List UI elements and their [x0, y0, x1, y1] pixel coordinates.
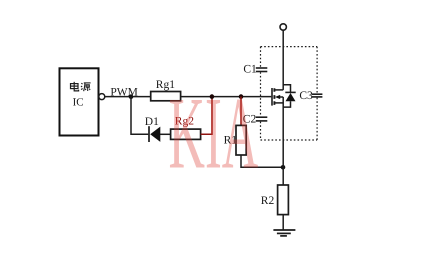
svg-text:R2: R2 [261, 195, 275, 207]
wire R1 bottom to source line [241, 155, 283, 167]
dashed model box bottom edge [261, 139, 318, 141]
svg-text:PWM: PWM [110, 86, 137, 98]
resistor R1 [236, 125, 246, 155]
mosfet Q1 body tab with arrow [279, 96, 283, 98]
wire diode to Rg2 [160, 133, 171, 135]
svg-text:IC: IC [73, 96, 84, 108]
resistor Rg2 [171, 129, 201, 139]
resistor R2 [278, 185, 289, 215]
ground [273, 229, 295, 231]
svg-text:KIA: KIA [169, 77, 259, 191]
capacitor C3 [312, 93, 323, 95]
body diode cathode bar [285, 91, 295, 93]
IC label 电 [71, 82, 79, 91]
diode D1 [148, 126, 150, 142]
wire (red) J3 down to R1 [240, 97, 242, 126]
node J3 [239, 94, 244, 99]
svg-text:C1: C1 [243, 64, 257, 76]
wire drain from terminal [282, 30, 284, 90]
supply terminal circle [280, 24, 286, 30]
body diode anode lead [283, 101, 290, 107]
capacitor C2 [256, 116, 267, 118]
IC label 源 [81, 83, 91, 91]
node J2 [210, 94, 215, 99]
svg-text:C3: C3 [299, 90, 313, 102]
IC U1 box (电源 IC) [60, 68, 99, 135]
wire (red) Rg2 to gate node [201, 97, 212, 135]
capacitor C1 [256, 67, 267, 69]
mosfet Q1 source tab [274, 102, 283, 104]
wire source down [282, 97, 284, 185]
svg-text:D1: D1 [145, 116, 159, 128]
mosfet Q1 drain-to-diode link [283, 85, 290, 93]
mosfet Q1 gate bar [271, 88, 273, 106]
body diode triangle [286, 93, 296, 101]
wire R2 to ground [282, 215, 284, 230]
pin circle (PWM output) [99, 94, 105, 100]
resistor Rg1 [151, 92, 181, 101]
node J4 [281, 165, 286, 170]
wire gate main [105, 96, 271, 98]
mosfet Q1 drain tab [274, 89, 283, 91]
wire branch down from J1 [131, 97, 148, 135]
mosfet Q1 channel segments [273, 88, 275, 105]
dashed model box top edge [261, 46, 318, 48]
dashed model box right edge (through C3) [316, 47, 318, 140]
node J1 [129, 94, 134, 99]
dashed model box left edge (through C1, C2) [260, 47, 262, 140]
